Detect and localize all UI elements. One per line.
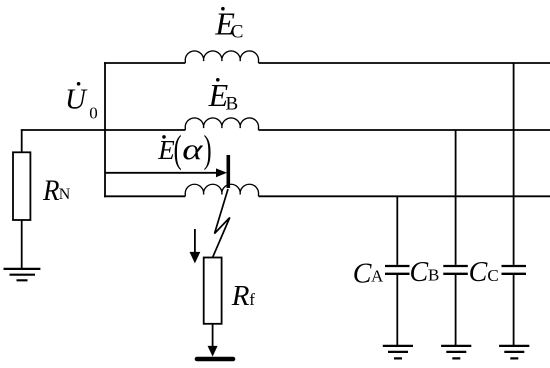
svg-text:C: C: [469, 257, 488, 288]
svg-text:α: α: [182, 133, 203, 166]
svg-text:C: C: [487, 266, 498, 285]
svg-text:R: R: [231, 280, 250, 312]
svg-text:0: 0: [89, 103, 98, 122]
svg-text:B: B: [226, 93, 239, 114]
svg-text:C: C: [231, 22, 244, 43]
svg-text:E: E: [157, 135, 175, 165]
svg-text:N: N: [59, 186, 71, 203]
svg-text:U: U: [65, 83, 88, 115]
svg-text:f: f: [249, 290, 255, 309]
svg-text:(: (: [174, 127, 182, 171]
svg-text:A: A: [371, 267, 384, 286]
svg-text:B: B: [428, 266, 439, 285]
svg-text:C: C: [353, 258, 372, 289]
svg-text:C: C: [410, 257, 429, 288]
svg-text:R: R: [42, 174, 59, 207]
svg-text:): ): [204, 127, 212, 171]
